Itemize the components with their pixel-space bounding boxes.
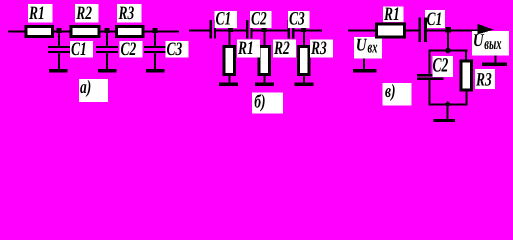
- label R2 (a): [75, 2, 99, 23]
- svg-text:R2: R2: [75, 2, 92, 23]
- resistor R3 (a): [115, 25, 145, 38]
- svg-text:C1: C1: [216, 8, 232, 29]
- caption v: [383, 80, 412, 106]
- capacitor C3 (a): [144, 32, 166, 69]
- svg-text:вх: вх: [368, 40, 378, 58]
- wire stem to R3 (b): [303, 31, 305, 45]
- label C2 (b): [250, 8, 272, 29]
- ground Uout (v): [482, 55, 507, 66]
- capacitor C2 (a): [96, 32, 118, 69]
- wire R2-R3 segment a: [100, 31, 117, 33]
- bottom wire (v): [429, 103, 468, 105]
- svg-text:R3: R3: [118, 2, 135, 23]
- wire output segment a: [144, 31, 180, 33]
- svg-text:в): в): [385, 80, 396, 101]
- resistor R1 (b): [223, 45, 237, 76]
- svg-text:C1: C1: [71, 38, 87, 59]
- label R1 (b): [237, 37, 260, 58]
- wire down from node (v): [447, 31, 449, 50]
- resistor R2 (b): [258, 45, 272, 76]
- label R3 (a): [117, 2, 142, 23]
- svg-text:C2: C2: [251, 8, 267, 29]
- svg-text:R1: R1: [28, 2, 45, 23]
- wire R1-C1 segment v: [405, 30, 420, 32]
- label R3 (v): [475, 69, 495, 90]
- capacitor C2 (v): [417, 74, 444, 80]
- capacitor C3 (b): [288, 20, 295, 39]
- capacitor C1 (b): [210, 20, 217, 39]
- svg-text:U: U: [356, 36, 368, 55]
- node dot mid (v): [444, 47, 452, 54]
- ground bottom (v): [434, 105, 456, 122]
- label C3 (b): [288, 8, 310, 29]
- resistor R1 (v): [375, 23, 406, 39]
- label C1 (v): [425, 8, 445, 29]
- ground Uin (v): [353, 59, 377, 73]
- node dot bottom (v): [444, 101, 451, 107]
- caption a: [79, 76, 108, 102]
- label R1 (a): [28, 2, 53, 23]
- ground C2 (a): [98, 69, 117, 72]
- output arrow: [478, 24, 494, 35]
- wire C2 to bottom (v): [429, 80, 431, 104]
- ground C3 (a): [146, 69, 165, 72]
- node dot on wire (v): [446, 27, 452, 33]
- wire input segment a: [8, 31, 26, 33]
- wire input segment v: [348, 30, 376, 32]
- capacitor C2 (b): [246, 20, 253, 39]
- ground R2 (b): [255, 76, 274, 86]
- wire input segment b: [189, 30, 210, 32]
- node dot 2 (a): [104, 28, 109, 33]
- label R1 (v): [383, 3, 404, 24]
- label Uout (v): [472, 31, 509, 55]
- svg-text:б): б): [254, 91, 265, 112]
- wire stem to R1 (b): [229, 31, 231, 45]
- svg-text:R1: R1: [383, 3, 400, 24]
- wire stem to R2 (b): [264, 31, 266, 45]
- node dot 3 (b): [301, 27, 306, 32]
- label C1 (b): [214, 8, 237, 29]
- svg-text:R3: R3: [310, 37, 327, 58]
- resistor R1 (a): [25, 25, 55, 38]
- node dot 2 (b): [262, 27, 267, 32]
- wire output segment v: [427, 30, 482, 32]
- wire C1-C2 segment b: [216, 30, 247, 32]
- resistor R2 (a): [70, 25, 101, 38]
- label C1 (a): [70, 38, 93, 59]
- wire R1-R2 segment a: [53, 31, 71, 33]
- node dot 3 (a): [153, 28, 158, 33]
- capacitor C1 (a): [48, 32, 70, 69]
- svg-text:C3: C3: [289, 8, 305, 29]
- svg-text:C2: C2: [433, 54, 449, 77]
- wire branch right to R3 (v): [449, 50, 468, 60]
- label C2 (a): [120, 38, 143, 59]
- svg-text:C3: C3: [167, 38, 183, 59]
- capacitor C1 (v): [419, 17, 427, 42]
- wire branch left to C2 (v): [429, 50, 450, 75]
- wire output segment b: [294, 30, 323, 32]
- svg-text:R2: R2: [273, 37, 290, 58]
- node dot 1 (b): [228, 27, 233, 32]
- resistor R3 (v): [460, 60, 474, 92]
- label C3 (a): [166, 38, 189, 59]
- wire R3 to bottom (v): [466, 92, 468, 105]
- svg-text:R3: R3: [475, 69, 492, 90]
- label R2 (b): [273, 37, 296, 58]
- wire C2-C3 segment b: [252, 30, 288, 32]
- ground R3 (b): [294, 76, 313, 86]
- caption b: [252, 91, 283, 114]
- ground C1 (a): [49, 69, 67, 72]
- svg-text:R1: R1: [237, 37, 254, 58]
- ground R1 (b): [219, 76, 238, 86]
- node dot 1 (a): [57, 28, 62, 33]
- resistor R3 (b): [297, 45, 311, 76]
- svg-text:U: U: [473, 32, 485, 51]
- svg-text:C2: C2: [121, 38, 137, 59]
- label R3 (b): [310, 37, 333, 58]
- svg-text:C1: C1: [427, 8, 443, 29]
- label Uin (v): [354, 36, 382, 58]
- svg-text:а): а): [80, 76, 91, 97]
- label C2 (v): [433, 54, 454, 78]
- svg-text:вых: вых: [484, 36, 501, 54]
